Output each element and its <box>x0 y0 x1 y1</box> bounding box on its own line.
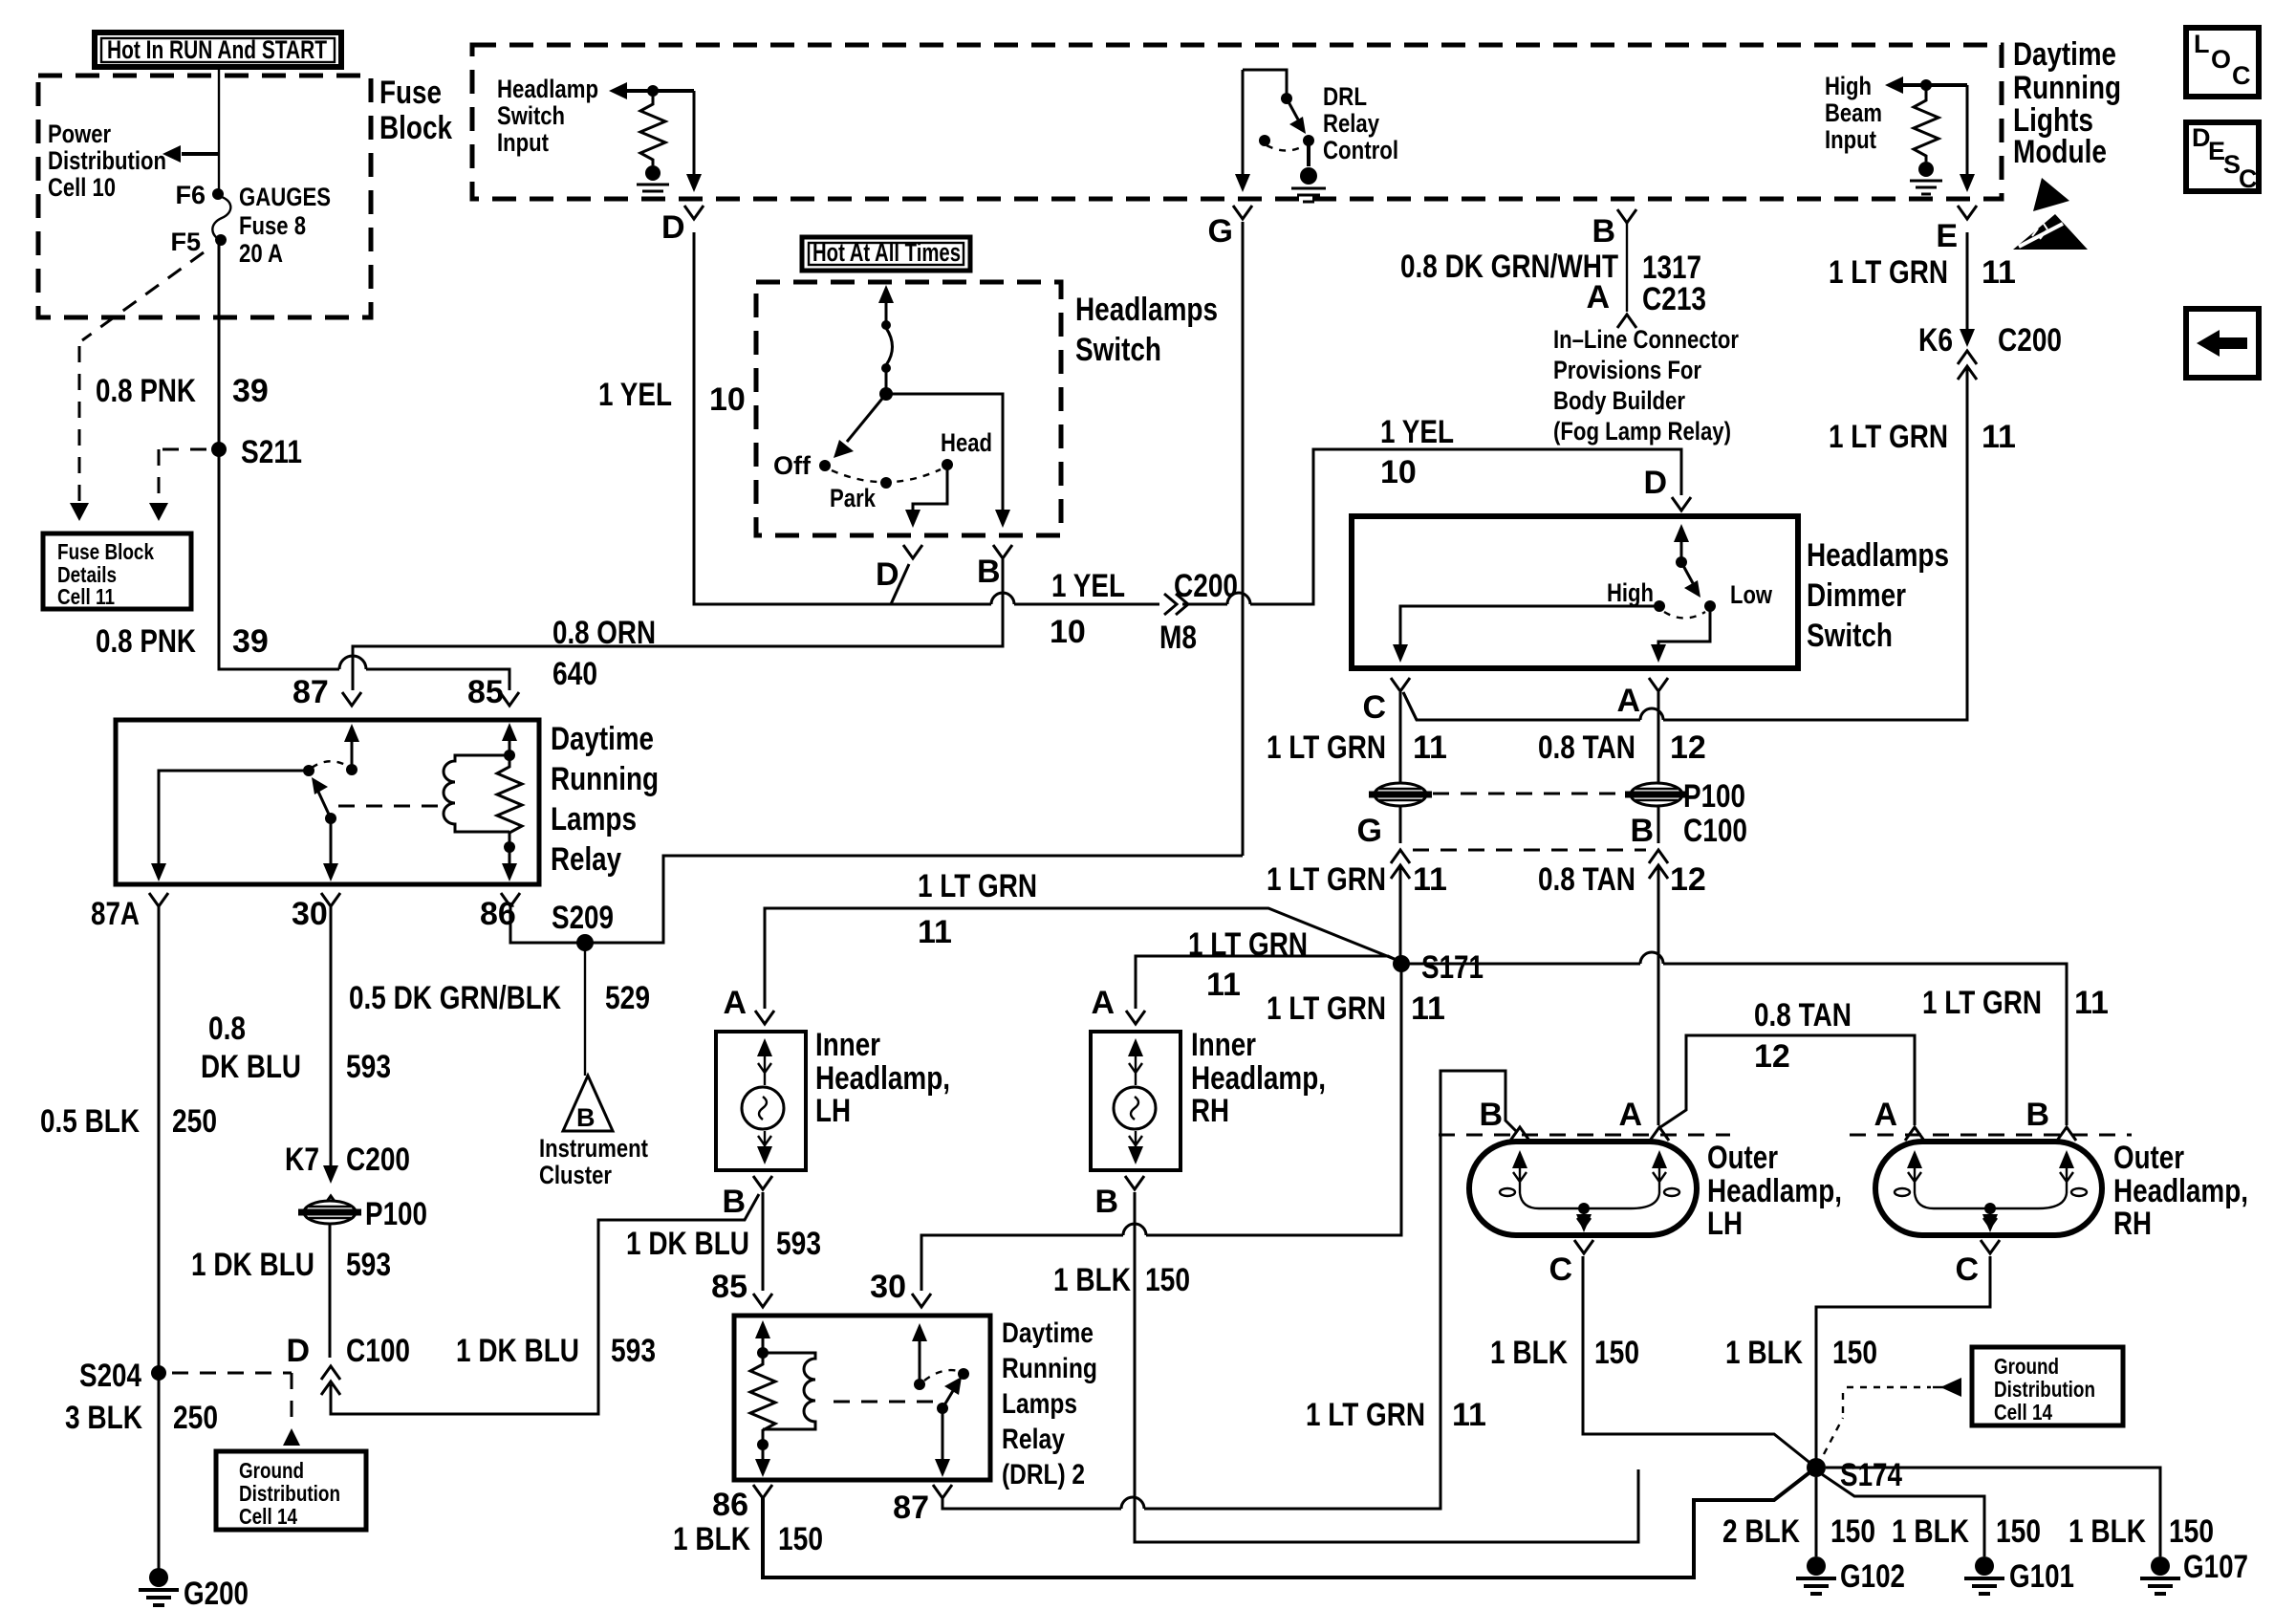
svg-text:250: 250 <box>172 1103 217 1140</box>
grommet P100 left <box>298 1196 427 1232</box>
svg-text:1 LT GRN: 1 LT GRN <box>1829 254 1948 291</box>
label 0.5 BLK 250 <box>40 1103 217 1140</box>
svg-text:0.8 PNK: 0.8 PNK <box>96 373 196 409</box>
pin label 87 relay1 <box>292 674 329 710</box>
label 1 LT GRN 11 outer RH B <box>1922 985 2109 1021</box>
label Outer Headlamp RH <box>2113 1140 2248 1242</box>
svg-text:A: A <box>1874 1097 1897 1133</box>
svg-text:1 LT GRN: 1 LT GRN <box>1306 1397 1425 1433</box>
connector M8 C200 chevrons <box>1164 594 1188 615</box>
wire S174 to G101 <box>1822 1474 1984 1556</box>
svg-text:A: A <box>1616 683 1640 719</box>
connector B C213 stub <box>1617 209 1636 328</box>
box back arrow <box>2186 309 2259 378</box>
svg-text:C200: C200 <box>346 1142 410 1178</box>
svg-text:G101: G101 <box>2009 1558 2074 1595</box>
svg-text:B: B <box>576 1103 596 1132</box>
svg-text:G: G <box>1357 813 1382 849</box>
svg-text:Control: Control <box>1323 136 1398 164</box>
svg-text:593: 593 <box>776 1226 821 1262</box>
box Hot In RUN And START <box>95 33 341 67</box>
svg-text:85: 85 <box>467 674 504 710</box>
relay1 pin85 coil feed <box>502 723 517 761</box>
svg-text:M8: M8 <box>1159 620 1197 656</box>
label 1 BLK 150 at inner RH B <box>1053 1262 1190 1298</box>
svg-text:S209: S209 <box>552 900 614 936</box>
svg-text:GAUGES: GAUGES <box>239 183 331 211</box>
DRL relay control switch <box>1243 70 1314 166</box>
label 1 LT GRN 11 below C100 <box>1267 861 1447 898</box>
svg-text:E: E <box>1936 218 1958 254</box>
svg-text:C213: C213 <box>1642 281 1706 317</box>
hump S171 wire over 0.8 TAN <box>1640 952 1663 964</box>
svg-text:In–Line Connector: In–Line Connector <box>1553 325 1739 354</box>
svg-text:F5: F5 <box>170 228 201 256</box>
wire S209 to instrument cluster <box>584 943 586 1076</box>
dimmer A exit chevron <box>1649 678 1668 691</box>
svg-text:1 BLK: 1 BLK <box>2069 1513 2146 1550</box>
svg-text:0.5 DK GRN/BLK: 0.5 DK GRN/BLK <box>349 980 561 1016</box>
wire 1 LT GRN 11 module E to dimmer C <box>1403 232 1967 720</box>
diagonal to headlamps switch D <box>891 564 909 604</box>
outer LH filaments <box>1500 1150 1679 1232</box>
svg-text:G: G <box>1208 213 1233 250</box>
svg-text:Fuse: Fuse <box>379 75 442 111</box>
svg-text:Running: Running <box>551 761 659 797</box>
svg-text:529: 529 <box>605 980 650 1016</box>
svg-text:1 LT GRN: 1 LT GRN <box>1267 729 1386 766</box>
pin label B headlamps switch <box>977 554 1001 590</box>
svg-text:Distribution: Distribution <box>1994 1377 2095 1402</box>
svg-text:Block: Block <box>379 110 452 146</box>
svg-text:Ground: Ground <box>239 1458 304 1483</box>
label 1 LT GRN 11 LH feed <box>918 868 1037 950</box>
svg-text:A: A <box>1618 1097 1642 1133</box>
hump 87 wire over inner RH B wire <box>1121 1497 1144 1509</box>
svg-text:12: 12 <box>1670 861 1706 898</box>
svg-text:39: 39 <box>232 373 269 409</box>
svg-text:Relay: Relay <box>1323 109 1379 138</box>
svg-text:1 YEL: 1 YEL <box>1051 568 1125 604</box>
svg-text:C200: C200 <box>1998 322 2062 359</box>
headlamps switch arm to Off <box>834 394 886 458</box>
relay2 pin chevrons below <box>753 1485 952 1498</box>
grommet P100 left of pair <box>1369 783 1432 806</box>
inner RH B chevron <box>1094 1176 1144 1220</box>
connector B C100 <box>1630 813 1747 879</box>
wire S171 to outer RH B <box>1409 964 2067 1125</box>
svg-text:11: 11 <box>1206 967 1241 1003</box>
svg-text:Switch: Switch <box>1075 332 1161 368</box>
svg-text:2 BLK: 2 BLK <box>1722 1513 1800 1550</box>
svg-text:C100: C100 <box>346 1333 410 1369</box>
inner LH A chevron <box>723 985 774 1024</box>
pin label 85 relay1 <box>467 674 504 710</box>
svg-text:Outer: Outer <box>1707 1140 1778 1176</box>
svg-text:Provisions For: Provisions For <box>1553 356 1701 384</box>
relay1 pin86 stem <box>502 847 517 881</box>
svg-text:P100: P100 <box>1683 778 1745 815</box>
high beam input arrow <box>1885 76 1967 94</box>
pin label 85 relay2 <box>711 1269 772 1307</box>
svg-text:Beam: Beam <box>1825 98 1882 127</box>
svg-text:11: 11 <box>1411 990 1445 1027</box>
dimmer contacts High Low <box>1607 578 1773 612</box>
label 1 BLK 150 at outer RH C <box>1725 1335 1877 1371</box>
label 1 BLK 150 at G107 <box>2069 1513 2214 1550</box>
svg-text:Module: Module <box>2013 134 2107 170</box>
svg-text:Off: Off <box>773 451 812 480</box>
dimmer switch arm <box>1674 524 1700 598</box>
svg-text:Distribution: Distribution <box>239 1481 340 1506</box>
pin label 87 relay2 <box>893 1490 929 1526</box>
svg-text:Daytime: Daytime <box>2013 36 2116 73</box>
svg-text:1 LT GRN: 1 LT GRN <box>918 868 1037 904</box>
label 0.8 DK GRN/WHT <box>1400 249 1618 285</box>
label 1 LT GRN 11 above P100 <box>1267 729 1447 766</box>
svg-text:12: 12 <box>1754 1038 1790 1075</box>
pin label C dimmer <box>1362 689 1386 726</box>
svg-text:G102: G102 <box>1840 1558 1905 1595</box>
pin label E module <box>1936 218 1958 254</box>
fuse block dashed box <box>38 76 371 317</box>
svg-text:3 BLK: 3 BLK <box>65 1400 142 1436</box>
box DESC <box>2186 122 2259 193</box>
label 0.8 TAN 12 jumper <box>1754 997 1852 1075</box>
module wire to E pin <box>1958 85 1977 219</box>
svg-text:Running: Running <box>2013 70 2121 106</box>
svg-text:LH: LH <box>815 1093 851 1129</box>
svg-text:B: B <box>1094 1184 1118 1220</box>
label 1 YEL 10 right <box>1380 414 1454 490</box>
svg-text:150: 150 <box>1145 1262 1190 1298</box>
svg-text:Fuse Block: Fuse Block <box>57 539 154 564</box>
svg-text:D: D <box>876 556 899 593</box>
wire inner LH B to relay2 pin85 <box>762 1192 765 1291</box>
dimmer D entry chevron <box>1672 497 1691 511</box>
svg-text:Cell 10: Cell 10 <box>48 173 116 202</box>
svg-text:1 DK BLU: 1 DK BLU <box>456 1333 579 1369</box>
svg-text:0.8 TAN: 0.8 TAN <box>1538 729 1635 766</box>
pin label 87A <box>91 896 140 932</box>
label B 1317 A C213 <box>1586 213 1706 317</box>
label 0.8 TAN 12 below C100 <box>1538 861 1706 898</box>
switch contacts Off Park Head <box>773 428 992 512</box>
wire fuse feed vertical <box>218 67 220 194</box>
wire inner RH A feed <box>1136 956 1398 1009</box>
outer RH B chevron <box>2025 1097 2076 1141</box>
svg-text:Daytime: Daytime <box>551 721 654 757</box>
svg-text:593: 593 <box>346 1049 391 1085</box>
svg-text:C: C <box>2232 61 2251 90</box>
svg-text:150: 150 <box>2169 1513 2214 1550</box>
svg-text:B: B <box>977 554 1001 590</box>
svg-text:Relay: Relay <box>551 841 621 878</box>
box Ground Distribution Cell 14 left <box>216 1451 366 1530</box>
connector K7 C200 <box>285 1142 410 1209</box>
label Headlamp Switch Input <box>497 75 598 157</box>
label 0.8 DK BLU 593 <box>201 1011 391 1085</box>
splice S204 <box>79 1358 166 1394</box>
label 1 DK BLU 593 <box>191 1247 391 1283</box>
splice S171 <box>1393 949 1484 986</box>
outer RH A chevron <box>1874 1097 1924 1141</box>
svg-text:Cell 11: Cell 11 <box>57 584 115 609</box>
label Headlamps Switch <box>1075 292 1218 368</box>
headlamps switch feed stem <box>878 285 894 401</box>
pin label D module <box>661 209 685 246</box>
label 0.8 TAN 12 above P100 <box>1538 729 1706 766</box>
svg-text:Fuse 8: Fuse 8 <box>239 211 306 240</box>
relay2 resistor <box>750 1353 775 1450</box>
wire 1 LT GRN 11 dimmer C down <box>1400 692 1417 843</box>
wire 1 YEL 10 from module D <box>694 232 1681 604</box>
relay2 dashed throw arc <box>924 1370 959 1381</box>
svg-text:Headlamp,: Headlamp, <box>2113 1173 2248 1209</box>
arrow to Power Distribution <box>162 145 219 163</box>
relay2 switch arm <box>935 1368 969 1477</box>
svg-text:1 YEL: 1 YEL <box>598 377 672 413</box>
svg-text:150: 150 <box>778 1521 823 1557</box>
svg-text:20 A: 20 A <box>239 239 283 268</box>
svg-text:B: B <box>1592 213 1615 250</box>
svg-text:K7: K7 <box>285 1142 319 1178</box>
svg-text:Relay: Relay <box>1002 1424 1065 1455</box>
svg-text:Headlamps: Headlamps <box>1075 292 1218 328</box>
DRL module dashed box <box>472 45 2002 199</box>
svg-text:B: B <box>2025 1097 2049 1133</box>
dashed ref from S211 to Fuse Block Details <box>149 449 206 521</box>
svg-text:1 BLK: 1 BLK <box>673 1521 750 1557</box>
svg-text:150: 150 <box>1594 1335 1639 1371</box>
dimmer High to C exit <box>1393 606 1659 663</box>
wire 0.8 PNK 39 <box>219 240 519 706</box>
svg-text:High: High <box>1607 578 1654 607</box>
svg-text:1 DK BLU: 1 DK BLU <box>626 1226 749 1262</box>
label Inner Headlamp LH <box>815 1027 950 1129</box>
svg-text:0.8 DK GRN/WHT: 0.8 DK GRN/WHT <box>1400 249 1618 285</box>
svg-text:Headlamp,: Headlamp, <box>1707 1173 1842 1209</box>
relay1 switch arm <box>312 777 338 881</box>
label 0.8 PNK 39 lower <box>96 623 269 660</box>
wire relay2 87 1 LT GRN 11 to outer LH B <box>942 1071 1516 1509</box>
headlamp switch input ground <box>637 165 669 198</box>
splice S211 <box>211 434 302 470</box>
svg-text:S204: S204 <box>79 1358 141 1394</box>
svg-text:L: L <box>2194 30 2210 58</box>
label 3 BLK 250 <box>65 1400 218 1436</box>
relay2 pin86 stem <box>755 1445 770 1477</box>
pin label 30 relay2 <box>870 1269 931 1307</box>
svg-text:11: 11 <box>918 914 952 950</box>
dashed travel arc Off-Park-Head <box>832 469 941 482</box>
outer LH B chevron <box>1479 1097 1529 1141</box>
svg-text:RH: RH <box>1191 1093 1229 1129</box>
headlamp switch input arrow <box>609 82 694 99</box>
svg-text:39: 39 <box>232 623 269 660</box>
svg-text:D: D <box>661 209 685 246</box>
Headlamps Dimmer Switch box <box>1352 516 1798 668</box>
svg-text:Lamps: Lamps <box>1002 1388 1077 1420</box>
svg-text:0.8 PNK: 0.8 PNK <box>96 623 196 660</box>
outer RH C chevron <box>1955 1240 2000 1288</box>
wire 0.8 TAN 12 dimmer A down <box>1657 692 1660 1125</box>
svg-text:O: O <box>2211 45 2231 74</box>
hump E wire over 0.8 TAN wire <box>1640 708 1663 720</box>
grommet P100 right of pair <box>1625 778 1745 815</box>
svg-text:30: 30 <box>870 1269 906 1305</box>
svg-text:Body Builder: Body Builder <box>1553 386 1685 415</box>
wire S171 down to relay2 pin30 <box>921 964 1401 1291</box>
wire 0.8 TAN 12 jumper LH A to RH A <box>1660 1035 1915 1127</box>
label 0.8 ORN 640 <box>552 615 656 692</box>
relay K2 Daytime Running Lamps Relay DRL 2 box <box>734 1316 1097 1490</box>
label 2 BLK 150 <box>1722 1513 1875 1550</box>
wire S174 to G107 <box>1826 1468 2160 1556</box>
label 1 BLK 150 at relay2 86 <box>673 1521 823 1557</box>
svg-text:Park: Park <box>830 484 877 512</box>
svg-text:1 LT GRN: 1 LT GRN <box>1829 419 1948 455</box>
high beam input resistor <box>1914 85 1939 162</box>
wire 1 LT GRN 11 C100 G to S171 <box>1399 866 1402 964</box>
svg-text:Headlamp: Headlamp <box>497 75 598 103</box>
label DRL Relay Control <box>1323 82 1398 164</box>
pin label A dimmer <box>1616 683 1640 719</box>
label 1 DK BLU 593 lower <box>456 1333 656 1369</box>
outer RH dashed top <box>1850 1134 2132 1137</box>
hump 1YEL over module G wire <box>1227 593 1250 604</box>
ground G107 <box>2140 1549 2248 1594</box>
svg-text:1 DK BLU: 1 DK BLU <box>191 1247 314 1283</box>
svg-text:150: 150 <box>1832 1335 1877 1371</box>
label 0.5 DK GRN/BLK 529 <box>349 980 650 1016</box>
wire module G to S209 junction <box>1242 222 1245 856</box>
connector K6 C200 <box>1918 322 2062 380</box>
svg-text:0.8 ORN: 0.8 ORN <box>552 615 656 651</box>
svg-text:C: C <box>2239 164 2258 193</box>
dashed ref S174 to Ground Distribution <box>1824 1378 1961 1454</box>
svg-text:1 BLK: 1 BLK <box>1892 1513 1969 1550</box>
label 0.8 PNK 39 upper <box>96 373 269 409</box>
svg-text:10: 10 <box>709 381 746 418</box>
dashed ref S204 to Ground Distribution <box>172 1373 300 1446</box>
relay1 switch common and 87A path <box>151 765 314 881</box>
svg-text:593: 593 <box>611 1333 656 1369</box>
svg-text:11: 11 <box>1413 729 1447 766</box>
svg-text:Input: Input <box>497 128 549 157</box>
svg-text:DRL: DRL <box>1323 82 1367 111</box>
wire relay2 86 1 BLK 150 to S174 <box>763 1470 1812 1577</box>
bulb inner RH <box>1114 1038 1156 1164</box>
svg-text:Instrument: Instrument <box>539 1134 648 1163</box>
inner LH B chevron <box>722 1176 772 1220</box>
svg-text:Headlamps: Headlamps <box>1807 537 1949 574</box>
pin label D headlamps switch <box>876 556 899 593</box>
outer headlamp RH shell <box>1875 1142 2102 1235</box>
svg-text:RH: RH <box>2113 1206 2152 1242</box>
dimmer dashed throw arc <box>1664 612 1705 619</box>
module wire to G pin <box>1233 70 1252 219</box>
svg-text:S174: S174 <box>1840 1457 1902 1493</box>
wire 86 relay1 to S209 <box>510 856 1243 943</box>
connector G C100 <box>1357 813 1410 879</box>
svg-text:1 BLK: 1 BLK <box>1725 1335 1803 1371</box>
svg-text:Head: Head <box>941 428 992 457</box>
wire Head to D terminal <box>903 465 947 558</box>
svg-text:640: 640 <box>552 656 597 692</box>
label Inner Headlamp RH <box>1191 1027 1326 1129</box>
svg-text:A: A <box>1091 985 1115 1021</box>
svg-text:DK BLU: DK BLU <box>201 1049 301 1085</box>
outer LH C chevron <box>1549 1240 1593 1288</box>
headlamps switch dashed box <box>756 282 1061 535</box>
dimmer C exit chevron <box>1391 678 1410 691</box>
outer RH filaments <box>1895 1150 2087 1232</box>
svg-text:0.5 BLK: 0.5 BLK <box>40 1103 140 1140</box>
instrument cluster triangle B <box>539 1076 648 1189</box>
svg-text:Switch: Switch <box>1807 618 1893 654</box>
relay1 coil <box>444 755 509 832</box>
label 1 LT GRN 11 below S171 <box>1267 990 1445 1027</box>
svg-text:11: 11 <box>1982 419 2016 455</box>
svg-text:Daytime: Daytime <box>1002 1317 1094 1349</box>
outer LH dashed top <box>1439 1134 1730 1137</box>
svg-text:S171: S171 <box>1421 949 1484 986</box>
connector D C100 <box>286 1333 410 1395</box>
svg-text:11: 11 <box>1982 254 2016 291</box>
svg-text:Hot In RUN And START: Hot In RUN And START <box>107 35 327 64</box>
svg-text:1 LT GRN: 1 LT GRN <box>1267 990 1386 1027</box>
relay2 pin30 stem <box>912 1323 927 1390</box>
wire common to B terminal <box>886 394 1012 558</box>
svg-text:C: C <box>1955 1251 1979 1288</box>
svg-text:12: 12 <box>1670 729 1706 766</box>
hump 1YEL over headlamp switch B wire <box>991 593 1014 604</box>
svg-text:Cell 14: Cell 14 <box>1994 1400 2052 1425</box>
ground G102 <box>1796 1556 1905 1595</box>
svg-text:1 BLK: 1 BLK <box>1053 1262 1131 1298</box>
svg-text:F6: F6 <box>175 181 206 209</box>
svg-text:Outer: Outer <box>2113 1140 2184 1176</box>
svg-text:G107: G107 <box>2183 1549 2248 1585</box>
svg-text:Headlamp,: Headlamp, <box>815 1060 950 1097</box>
relay2 coil <box>763 1353 815 1429</box>
dashed ref from F5 to Fuse Block Details <box>70 252 204 521</box>
svg-text:Input: Input <box>1825 125 1876 154</box>
box Ground Distribution Cell 14 right <box>1972 1347 2123 1425</box>
ground G200 <box>139 1568 249 1610</box>
svg-text:Inner: Inner <box>815 1027 880 1063</box>
svg-text:S211: S211 <box>241 434 302 470</box>
wire inner RH B 1 BLK 150 to S174 <box>1135 1192 1638 1542</box>
label 1 YEL C200 10 M8 <box>1050 568 1238 656</box>
label 1 BLK 150 at outer LH C <box>1490 1335 1639 1371</box>
svg-text:1 BLK: 1 BLK <box>1490 1335 1568 1371</box>
svg-text:Running: Running <box>1002 1353 1097 1384</box>
label Headlamps Dimmer Switch <box>1807 537 1949 654</box>
ground G101 <box>1964 1556 2074 1595</box>
svg-text:G200: G200 <box>184 1576 249 1610</box>
label Power Distribution Cell 10 <box>48 120 166 202</box>
dashed pass-through P100 pair <box>1433 793 1628 795</box>
svg-text:1 LT GRN: 1 LT GRN <box>1188 926 1308 963</box>
svg-text:11: 11 <box>1413 861 1447 898</box>
relay1 dashed coil link <box>338 805 442 808</box>
wire outer LH C 1 BLK 150 to S174 <box>1583 1256 1812 1465</box>
pin label 30 <box>292 896 328 932</box>
svg-text:C100: C100 <box>1683 813 1747 849</box>
high beam input ground <box>1910 162 1942 194</box>
